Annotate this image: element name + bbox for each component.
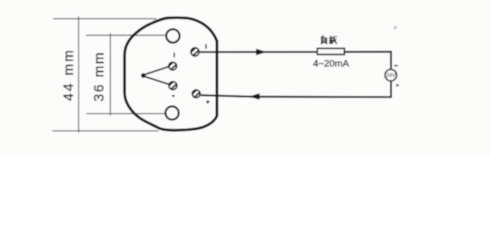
terminal screw 2 (lower left) xyxy=(167,80,181,93)
terminal screw 4 (lower right) xyxy=(190,88,204,101)
dimension 36 mm extension line bottom xyxy=(87,113,165,115)
dimension 36 mm extension line top xyxy=(86,34,165,36)
pin mark 1 (tick above terminal 1) xyxy=(173,53,175,58)
supply polarity mark plus xyxy=(396,84,399,87)
wire from center pin to terminal 2 xyxy=(145,77,169,85)
svg-text:4~20mA: 4~20mA xyxy=(313,59,350,70)
dimension 36 mm vertical line xyxy=(109,33,111,115)
label 负 (load char 1) hand-drawn xyxy=(321,36,327,44)
pin mark (dot below terminal 4 wire) xyxy=(206,101,209,104)
svg-text:24V: 24V xyxy=(386,73,396,79)
label 载 (load char 2) hand-drawn xyxy=(329,36,337,44)
dimension 44 mm vertical line xyxy=(78,16,80,132)
terminal screw 1 (upper left) xyxy=(167,60,181,73)
pin mark (tick above terminal 3) xyxy=(205,44,207,49)
mounting hole top xyxy=(166,29,179,42)
connector body outline xyxy=(125,18,217,131)
current arrow on bottom wire xyxy=(249,93,259,99)
wire from center pin to terminal 1 xyxy=(145,67,169,75)
load resistor box xyxy=(317,48,344,54)
supply polarity mark minus xyxy=(394,65,398,67)
svg-text:36 mm: 36 mm xyxy=(90,51,106,102)
scan speck xyxy=(394,26,397,29)
pin mark 2 (dot below terminal 2) xyxy=(172,95,174,97)
current arrow on top wire xyxy=(256,49,266,55)
center pin node xyxy=(141,73,146,78)
dimension 44 mm extension line top xyxy=(53,18,157,20)
wire: loop top (+) from terminal 3 to supply corner xyxy=(200,52,391,69)
power supply 24V circle xyxy=(385,69,397,81)
mounting hole bottom xyxy=(166,106,179,119)
dimension 44 mm extension line bottom xyxy=(52,130,158,132)
terminal screw 3 (upper right) xyxy=(189,46,203,59)
wire: loop bottom (-) from supply corner to terminal 4 xyxy=(201,81,391,97)
paper background xyxy=(0,0,490,155)
svg-text:44 mm: 44 mm xyxy=(60,48,76,101)
